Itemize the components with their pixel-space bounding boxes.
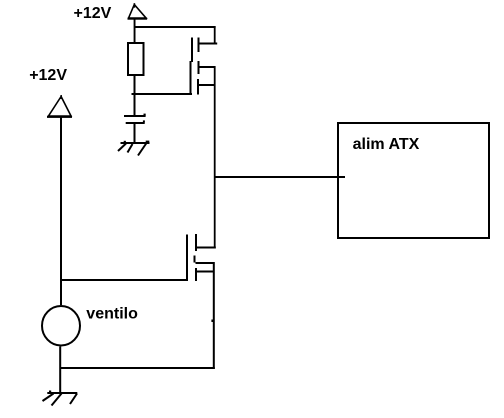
wire: capacitor to ground: [134, 124, 136, 143]
svg-text:alim ATX: alim ATX: [353, 136, 420, 153]
ground (below capacitor): [118, 141, 150, 156]
fan motor circle (ventilo): [42, 306, 80, 346]
wire: gate of M1 from resistor node: [132, 93, 193, 95]
box alim ATX: [338, 123, 489, 238]
svg-text:+12V: +12V: [29, 67, 67, 84]
wire: stub crossing into alim ATX box: [336, 176, 345, 178]
svg-text:+12V: +12V: [74, 5, 112, 22]
wire: M2 source down to bottom rail: [213, 262, 215, 369]
solder tick on M2 source wire: [211, 320, 213, 323]
resistor R1: [128, 43, 144, 75]
svg-text:ventilo: ventilo: [86, 305, 138, 322]
wire: fan bottom to ground: [59, 347, 61, 394]
wire: bottom rail from fan to M2 source: [60, 367, 215, 369]
wire: left flag down to fan: [60, 118, 62, 306]
transistor M2 (bottom MOSFET): [186, 234, 216, 281]
wire: drop from top rail to M1 drain lead: [214, 26, 216, 44]
wire: gate of M2 from left rail: [60, 279, 188, 281]
power flag triangle (left +12V): [47, 95, 72, 118]
wire: vertical bus M1 source to M2 drain: [214, 66, 216, 249]
ground (bottom left): [43, 391, 78, 406]
wire: branch to alim ATX box: [215, 176, 345, 178]
capacitor C1: [124, 114, 146, 124]
wire: resistor bottom to capacitor: [134, 76, 136, 116]
power flag triangle (top +12V): [128, 3, 148, 20]
wire: top flag stem down to resistor: [134, 19, 136, 43]
wire: top horizontal +12V rail to M1 drain: [134, 26, 216, 28]
transistor M1 (top MOSFET): [190, 38, 218, 96]
